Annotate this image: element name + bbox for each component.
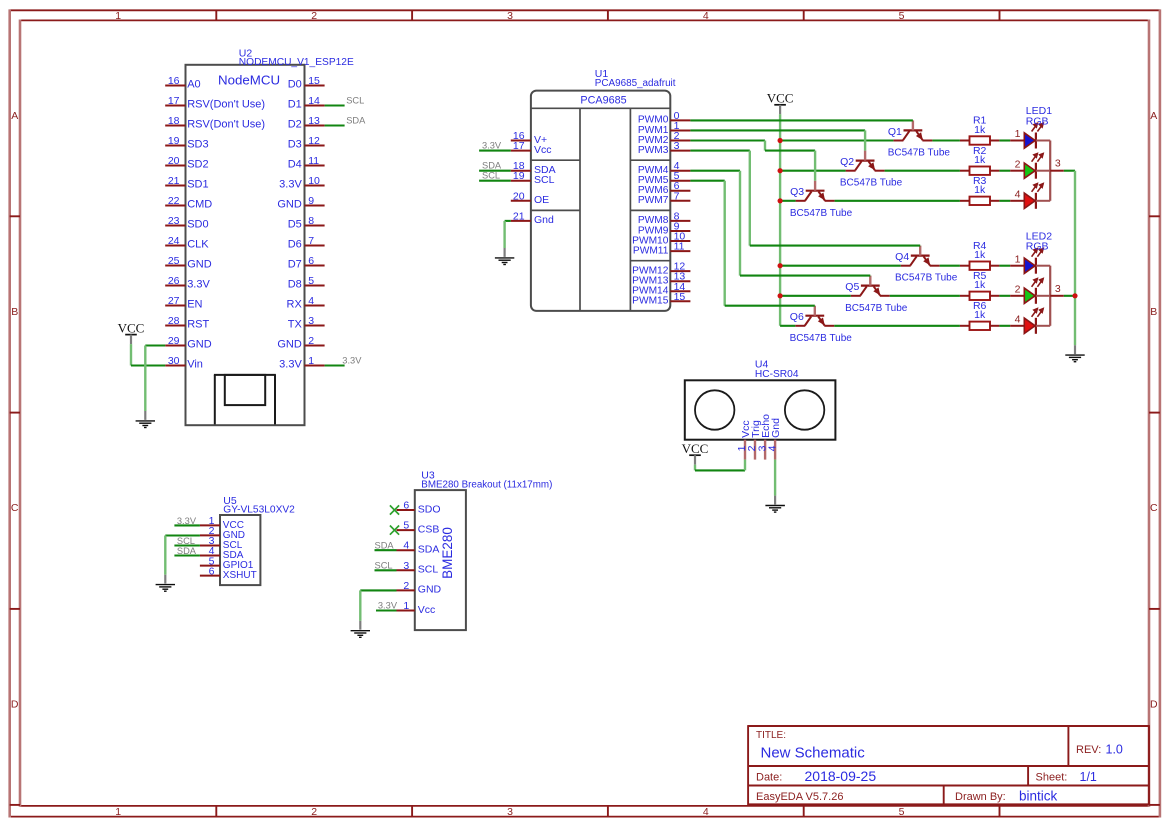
svg-text:21: 21	[168, 175, 180, 187]
svg-text:SCL: SCL	[177, 536, 195, 546]
svg-text:D6: D6	[288, 239, 302, 251]
svg-text:20: 20	[513, 190, 525, 202]
svg-text:5: 5	[899, 806, 905, 818]
svg-text:EN: EN	[187, 299, 202, 311]
svg-text:1: 1	[1015, 128, 1021, 140]
svg-text:D7: D7	[288, 259, 302, 271]
svg-text:HC-SR04: HC-SR04	[755, 369, 799, 380]
svg-text:BC547B Tube: BC547B Tube	[790, 208, 853, 219]
svg-text:CLK: CLK	[187, 239, 209, 251]
svg-text:3: 3	[507, 10, 513, 22]
svg-text:PWM11: PWM11	[633, 245, 669, 256]
svg-text:1k: 1k	[974, 124, 986, 136]
svg-text:4: 4	[703, 806, 709, 818]
svg-text:1k: 1k	[974, 184, 986, 196]
svg-text:1/1: 1/1	[1080, 770, 1097, 784]
svg-text:3.3V: 3.3V	[177, 516, 197, 526]
svg-text:Sheet:: Sheet:	[1036, 772, 1068, 784]
svg-text:3: 3	[1055, 158, 1061, 170]
svg-text:RST: RST	[187, 319, 209, 331]
svg-text:1: 1	[403, 600, 409, 612]
svg-text:PWM3: PWM3	[638, 145, 669, 156]
svg-text:19: 19	[513, 170, 525, 182]
svg-text:30: 30	[168, 355, 180, 367]
svg-text:2: 2	[308, 335, 314, 347]
svg-text:NodeMCU: NodeMCU	[218, 73, 280, 88]
svg-text:D3: D3	[288, 139, 302, 151]
svg-text:Gnd: Gnd	[770, 418, 782, 438]
svg-text:11: 11	[308, 155, 319, 167]
svg-text:C: C	[1150, 502, 1158, 514]
svg-text:Q2: Q2	[840, 156, 854, 168]
svg-text:29: 29	[168, 335, 180, 347]
svg-text:CMD: CMD	[187, 199, 212, 211]
svg-text:1k: 1k	[974, 154, 986, 166]
svg-text:SDO: SDO	[418, 503, 441, 515]
svg-text:2: 2	[1015, 158, 1021, 170]
svg-text:GND: GND	[187, 259, 212, 271]
svg-text:4: 4	[1015, 314, 1021, 326]
svg-text:3.3V: 3.3V	[378, 600, 398, 610]
svg-text:BME280: BME280	[440, 527, 455, 579]
svg-text:CSB: CSB	[418, 523, 440, 535]
svg-text:A: A	[11, 110, 18, 122]
svg-text:7: 7	[308, 235, 314, 247]
svg-text:8: 8	[308, 215, 314, 227]
svg-text:RX: RX	[287, 299, 303, 311]
svg-text:3.3V: 3.3V	[279, 359, 302, 371]
svg-text:Gnd: Gnd	[534, 214, 554, 226]
svg-text:3: 3	[1055, 283, 1061, 295]
svg-text:RGB: RGB	[1026, 115, 1049, 127]
svg-text:GND: GND	[277, 199, 302, 211]
svg-text:25: 25	[168, 255, 180, 267]
svg-text:D: D	[1150, 698, 1158, 710]
svg-text:3.3V: 3.3V	[482, 140, 502, 150]
svg-text:6: 6	[209, 565, 215, 577]
svg-text:7: 7	[674, 190, 680, 202]
svg-text:C: C	[11, 502, 19, 514]
svg-text:15: 15	[308, 75, 320, 87]
svg-text:11: 11	[674, 241, 685, 253]
svg-text:SD1: SD1	[187, 179, 208, 191]
svg-text:D4: D4	[288, 159, 302, 171]
svg-text:A0: A0	[187, 79, 200, 91]
svg-text:1: 1	[115, 10, 121, 22]
svg-text:Vin: Vin	[187, 359, 203, 371]
svg-text:2: 2	[1015, 283, 1021, 295]
svg-text:SDA: SDA	[418, 544, 440, 556]
svg-text:1k: 1k	[974, 309, 986, 321]
svg-text:16: 16	[168, 75, 180, 87]
svg-text:15: 15	[674, 291, 686, 303]
svg-text:3: 3	[674, 140, 680, 152]
svg-text:4: 4	[703, 10, 709, 22]
svg-text:3.3V: 3.3V	[187, 279, 210, 291]
svg-text:9: 9	[308, 195, 314, 207]
svg-text:Q4: Q4	[895, 251, 909, 263]
svg-text:1: 1	[1015, 253, 1021, 265]
svg-text:BC547B Tube: BC547B Tube	[790, 333, 853, 344]
svg-text:NODEMCU_V1_ESP12E: NODEMCU_V1_ESP12E	[239, 57, 354, 68]
svg-text:26: 26	[168, 275, 180, 287]
svg-text:PCA9685: PCA9685	[580, 94, 626, 106]
svg-text:SD0: SD0	[187, 219, 208, 231]
svg-text:BC547B Tube: BC547B Tube	[888, 148, 951, 159]
svg-text:Vcc: Vcc	[534, 144, 552, 156]
svg-text:BC547B Tube: BC547B Tube	[845, 303, 908, 314]
svg-text:XSHUT: XSHUT	[223, 570, 257, 581]
svg-text:Vcc: Vcc	[418, 604, 436, 616]
svg-text:New Schematic: New Schematic	[761, 744, 866, 761]
svg-text:SDA: SDA	[482, 161, 502, 171]
svg-text:GY-VL53L0XV2: GY-VL53L0XV2	[223, 504, 295, 515]
svg-text:RSV(Don't Use): RSV(Don't Use)	[187, 99, 265, 111]
svg-text:14: 14	[308, 95, 320, 107]
svg-text:SD2: SD2	[187, 159, 208, 171]
svg-text:SCL: SCL	[482, 171, 500, 181]
svg-text:SCL: SCL	[534, 174, 555, 186]
svg-text:13: 13	[308, 115, 320, 127]
svg-text:28: 28	[168, 315, 180, 327]
svg-text:VCC: VCC	[118, 320, 145, 335]
svg-text:17: 17	[168, 95, 180, 107]
svg-text:B: B	[11, 306, 18, 318]
svg-text:RSV(Don't Use): RSV(Don't Use)	[187, 119, 265, 131]
svg-text:D5: D5	[288, 219, 302, 231]
svg-text:20: 20	[168, 155, 180, 167]
svg-text:GND: GND	[418, 584, 442, 596]
svg-text:SCL: SCL	[375, 560, 393, 570]
svg-text:10: 10	[308, 175, 320, 187]
svg-text:1k: 1k	[974, 279, 986, 291]
svg-text:6: 6	[403, 500, 409, 512]
svg-text:2018-09-25: 2018-09-25	[805, 768, 877, 784]
svg-text:4: 4	[766, 445, 778, 451]
svg-text:SD3: SD3	[187, 139, 208, 151]
svg-text:SCL: SCL	[418, 564, 439, 576]
svg-text:4: 4	[403, 540, 409, 552]
svg-text:BC547B Tube: BC547B Tube	[895, 273, 958, 284]
svg-text:3: 3	[308, 315, 314, 327]
svg-text:PWM15: PWM15	[632, 296, 669, 307]
svg-text:RGB: RGB	[1026, 241, 1049, 253]
svg-text:17: 17	[513, 140, 525, 152]
svg-text:19: 19	[168, 135, 180, 147]
svg-text:Q5: Q5	[845, 281, 859, 293]
svg-text:bintick: bintick	[1019, 789, 1058, 804]
svg-text:SDA: SDA	[177, 546, 197, 556]
svg-text:D2: D2	[288, 119, 302, 131]
svg-text:3: 3	[403, 560, 409, 572]
svg-text:REV:: REV:	[1076, 744, 1101, 756]
svg-text:D8: D8	[288, 279, 302, 291]
svg-text:PCA9685_adafruit: PCA9685_adafruit	[595, 78, 676, 89]
svg-text:12: 12	[308, 135, 320, 147]
svg-text:TX: TX	[288, 319, 303, 331]
svg-text:2: 2	[311, 806, 317, 818]
svg-text:PWM7: PWM7	[638, 195, 669, 206]
svg-text:5: 5	[403, 520, 409, 532]
svg-text:GND: GND	[277, 339, 302, 351]
svg-text:18: 18	[168, 115, 180, 127]
svg-text:5: 5	[308, 275, 314, 287]
svg-text:A: A	[1150, 110, 1157, 122]
svg-text:Q6: Q6	[790, 311, 804, 323]
svg-text:22: 22	[168, 195, 180, 207]
svg-text:VCC: VCC	[682, 441, 709, 456]
svg-text:2: 2	[403, 580, 409, 592]
svg-text:BME280 Breakout (11x17mm): BME280 Breakout (11x17mm)	[421, 480, 552, 491]
svg-text:Q1: Q1	[888, 126, 902, 138]
svg-text:3: 3	[507, 806, 513, 818]
svg-text:B: B	[1150, 306, 1157, 318]
svg-text:2: 2	[311, 10, 317, 22]
svg-text:24: 24	[168, 235, 180, 247]
svg-text:3.3V: 3.3V	[279, 179, 302, 191]
svg-text:VCC: VCC	[767, 91, 794, 106]
svg-text:TITLE:: TITLE:	[756, 730, 786, 741]
svg-text:3.3V: 3.3V	[342, 356, 362, 366]
svg-text:1: 1	[308, 355, 314, 367]
svg-text:OE: OE	[534, 194, 549, 206]
svg-text:GND: GND	[187, 339, 212, 351]
svg-text:27: 27	[168, 295, 180, 307]
svg-text:23: 23	[168, 215, 180, 227]
svg-text:BC547B Tube: BC547B Tube	[840, 178, 903, 189]
svg-text:6: 6	[308, 255, 314, 267]
svg-text:SCL: SCL	[346, 96, 364, 106]
svg-text:1: 1	[115, 806, 121, 818]
svg-text:Q3: Q3	[790, 186, 804, 198]
svg-text:1k: 1k	[974, 249, 986, 261]
svg-text:SDA: SDA	[375, 540, 395, 550]
svg-text:Drawn By:: Drawn By:	[955, 791, 1006, 803]
svg-text:21: 21	[513, 210, 525, 222]
svg-text:D0: D0	[288, 79, 302, 91]
svg-text:5: 5	[899, 10, 905, 22]
svg-text:4: 4	[1015, 189, 1021, 201]
svg-text:Date:: Date:	[756, 772, 782, 784]
svg-text:EasyEDA V5.7.26: EasyEDA V5.7.26	[756, 791, 843, 803]
svg-text:4: 4	[308, 295, 314, 307]
svg-text:1.0: 1.0	[1106, 742, 1123, 756]
svg-text:D: D	[11, 698, 19, 710]
svg-text:D1: D1	[288, 99, 302, 111]
svg-text:SDA: SDA	[346, 116, 366, 126]
